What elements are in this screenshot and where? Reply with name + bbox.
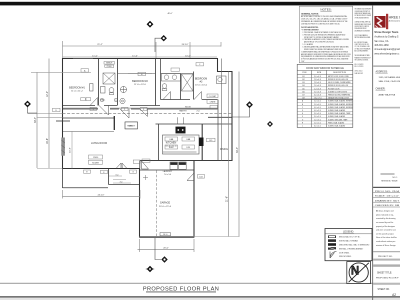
svg-text:THE DESIGNER HAS NOT BEEN: THE DESIGNER HAS NOT BEEN: [355, 54, 370, 58]
mud room door swing: [142, 161, 149, 169]
bedroom1 door leaf tag: [90, 84, 93, 91]
grid marker diamond top B with leader: [155, 35, 167, 52]
svg-text:CAB: CAB: [186, 138, 191, 141]
garage bottom wall emphasis: [140, 236, 195, 238]
notes block border: [299, 6, 352, 63]
svg-text:4'-0 x 4'-0: 4'-0 x 4'-0: [314, 107, 321, 109]
door tag hall c: [141, 107, 148, 111]
svg-text:LINEN: LINEN: [210, 102, 216, 104]
svg-text:16'-0: 16'-0: [163, 234, 167, 236]
legend swatch row 2: [328, 239, 358, 242]
disclaimer column short lines: [355, 64, 364, 75]
svg-text:2'-0: 2'-0: [196, 111, 199, 113]
svg-text:2'-8 x 6'-8: 2'-8 x 6'-8: [314, 82, 321, 84]
title block divider 2: [373, 107, 400, 109]
bedroom1 interior door swing: [90, 98, 98, 106]
svg-text:3'-0 x 6'-8: 3'-0 x 6'-8: [314, 76, 321, 78]
wall hall bottom: [63, 117, 115, 119]
schedule table outer border: [297, 64, 353, 127]
info table row 4: [373, 205, 400, 207]
dimension line garage bottom: [138, 249, 195, 251]
bath2 vanity with two sinks: [162, 74, 181, 82]
wall bath2 bedroom3 divider: [180, 74, 182, 100]
top wall window glazing bedroom1: [73, 58, 93, 60]
north arrow box: [347, 262, 371, 284]
svg-text:4'-0: 4'-0: [120, 181, 123, 183]
svg-text:16'-8": 16'-8": [46, 138, 49, 144]
legend swatch row 4: [328, 247, 364, 250]
svg-text:LEGEND:: LEGEND:: [343, 230, 354, 233]
patio step bottom: [109, 184, 140, 186]
grid marker diamond bottom A with leader: [155, 238, 168, 263]
info table row 2: [373, 195, 400, 198]
logo red square: [374, 16, 385, 28]
svg-text:San Jose, CA: San Jose, CA: [374, 40, 389, 43]
living room tag stack b: [89, 160, 103, 164]
dimension extension garage bottom: [140, 236, 240, 238]
grid marker diamond right A with leader: [232, 101, 253, 117]
hall bath circle fixture: [120, 86, 126, 92]
wall bedroom3 bottom: [161, 99, 218, 101]
svg-text:10'-0 x 10'-0: 10'-0 x 10'-0: [195, 85, 208, 87]
master closet door line: [118, 73, 155, 75]
wall kitchen top: [156, 123, 233, 125]
svg-text:POLE: POLE: [107, 66, 113, 68]
svg-text:103: 103: [302, 82, 305, 84]
svg-text:CHECKED BY: SM: CHECKED BY: SM: [375, 205, 400, 207]
svg-text:ALL CONSTRUCTION SHALL: ALL CONSTRUCTION SHALL: [355, 40, 369, 44]
svg-text:105: 105: [209, 140, 212, 142]
svg-text:107: 107: [302, 95, 305, 97]
svg-text:12'-2": 12'-2": [46, 91, 49, 97]
svg-text:20'-0 x 21'-6: 20'-0 x 21'-6: [159, 206, 172, 208]
sheet title underline: [146, 291, 216, 294]
sheet inner bottom border line: [0, 283, 400, 284]
fridge dark box on dining wall: [199, 138, 204, 147]
svg-text:21'-6": 21'-6": [225, 196, 228, 202]
svg-text:are owned by and the: are owned by and the: [376, 221, 393, 224]
svg-text:1: 1: [93, 109, 94, 111]
garage door tag on bottom wall: [160, 233, 171, 237]
bath1 toilet: [109, 88, 114, 95]
dimension extension left at wall line: [37, 118, 63, 169]
svg-text:OF THE DESIGNER. WRITTEN: OF THE DESIGNER. WRITTEN: [355, 17, 369, 19]
north arrow diagonal: [349, 263, 369, 282]
svg-text:NOOK: NOOK: [185, 106, 192, 108]
dimension line patio bottom: [63, 195, 141, 197]
svg-text:AMAY MAJITHIA: AMAY MAJITHIA: [379, 93, 396, 96]
closet shelving X box bath1: [103, 73, 115, 84]
wall hall south: [63, 108, 218, 110]
door swing bath2: [163, 92, 171, 100]
svg-text:21'-2": 21'-2": [97, 44, 103, 46]
svg-text:INTERIOR DOOR, HOLLOW: INTERIOR DOOR, HOLLOW: [328, 79, 349, 81]
grid marker diamond top A: [147, 21, 154, 28]
disclaimer column paragraph 2: [355, 20, 372, 32]
dimension line right pair a: [228, 72, 230, 237]
door swing hall to bath: [140, 109, 148, 117]
project no divider: [373, 251, 400, 253]
svg-text:COMPLY WITH 2019 CRC, CBC,: COMPLY WITH 2019 CRC, CBC,: [355, 44, 370, 46]
wall bedroom3 left: [193, 72, 195, 100]
schedule column header texts: [302, 72, 346, 74]
title block left divider: [371, 5, 374, 300]
patio dimension small arrows: [109, 176, 131, 183]
svg-text:PROJ. NO: 2104: PROJ. NO: 2104: [375, 191, 400, 193]
svg-text:LAUNDRY: LAUNDRY: [163, 170, 173, 173]
svg-text:SIZE: SIZE: [317, 72, 322, 74]
svg-text:103: 103: [199, 176, 202, 178]
svg-text:7-0 x 5-0: 7-0 x 5-0: [164, 174, 171, 176]
door tag hall a: [90, 107, 97, 111]
svg-text:DW: DW: [187, 147, 190, 149]
sheet top border band: [0, 2, 400, 6]
bath2 vanity front line: [161, 73, 194, 75]
svg-text:ADDRESS:: ADDRESS:: [376, 70, 389, 73]
mud tag box a: [133, 160, 140, 163]
dimension line top: [63, 45, 222, 47]
svg-text:SHEET NO.: SHEET NO.: [378, 289, 391, 291]
bedroom3 closet tag b: [207, 100, 218, 104]
svg-text:NO. 1: NO. 1: [393, 177, 398, 179]
svg-text:W/D: W/D: [129, 126, 133, 128]
schedule header row line: [297, 73, 353, 75]
svg-text:16'-0 x 7'-0: 16'-0 x 7'-0: [314, 98, 322, 100]
living room dim vertical: [71, 132, 73, 169]
svg-text:Architectural Des: Architectural Des: [389, 19, 400, 22]
svg-text:106: 106: [302, 91, 305, 93]
svg-text:GARAGE: GARAGE: [160, 202, 171, 205]
svg-text:2'-6 x 6'-8: 2'-6 x 6'-8: [314, 85, 321, 87]
svg-text:All ideas, designs and: All ideas, designs and: [376, 210, 393, 213]
fireplace hatch on west wall: [61, 138, 65, 156]
nook north wall: [208, 116, 232, 118]
svg-text:FRENCH DOORS, TEMPERED: FRENCH DOORS, TEMPERED: [328, 95, 351, 97]
svg-text:24'-10": 24'-10": [182, 44, 189, 46]
svg-text:None of the ideas shall be: None of the ideas shall be: [376, 236, 397, 239]
legend door swing symbol: [330, 252, 337, 259]
door tag garage entry: [198, 175, 205, 179]
wall kitchen nook divider double: [201, 124, 203, 161]
svg-text:SHELF: SHELF: [106, 63, 113, 65]
svg-text:INTERIOR DOOR, HOLLOW: INTERIOR DOOR, HOLLOW: [328, 85, 349, 87]
svg-text:3: 3: [143, 109, 144, 111]
svg-text:resented by this drawing: resented by this drawing: [376, 217, 395, 220]
info table row 3: [373, 199, 400, 202]
thick gray band upper: [373, 259, 400, 261]
disclaimer column paragraph 5: [355, 54, 371, 62]
svg-text:108: 108: [302, 98, 305, 100]
info table top border: [373, 187, 400, 188]
svg-text:1535, MCDANIEL AVE: 1535, MCDANIEL AVE: [379, 76, 400, 79]
kitchen cabinet tag r2c2: [182, 145, 195, 149]
svg-text:CONTRACTOR SHALL VERIFY ALL: CONTRACTOR SHALL VERIFY ALL: [355, 20, 371, 24]
svg-text:shreedesignteam@gmail: shreedesignteam@gmail: [374, 48, 400, 51]
bath2 shower X box: [182, 74, 194, 91]
svg-text:plans indicated or rep-: plans indicated or rep-: [376, 213, 394, 216]
dimension line right pair b: [238, 72, 240, 237]
kitchen cabinet tag r1c1: [165, 137, 178, 141]
svg-text:BEDROOM #1: BEDROOM #1: [69, 87, 85, 90]
svg-text:REVISION / ISSUE: REVISION / ISSUE: [381, 180, 398, 182]
smoke detector circle b: [114, 98, 117, 102]
sheet outer bottom trim line: [0, 296, 400, 297]
door tag hall b: [122, 107, 129, 111]
svg-text:5'-0 x 4'-0: 5'-0 x 4'-0: [314, 101, 321, 103]
legend box border: [325, 229, 372, 261]
svg-text:408-381-1660: 408-381-1660: [374, 45, 389, 47]
water heater closet at step: [217, 76, 227, 84]
svg-text:2: 2: [124, 109, 125, 111]
svg-text:DOOR SYMBOL: DOOR SYMBOL: [339, 252, 350, 254]
door swing bedroom3: [194, 92, 202, 100]
svg-text:DOOR AND WINDOW SCHEDULE: DOOR AND WINDOW SCHEDULE: [306, 67, 344, 70]
svg-text:F: F: [302, 116, 303, 118]
svg-text:KITCHEN: KITCHEN: [166, 142, 177, 145]
svg-text:30'-4": 30'-4": [34, 117, 37, 123]
svg-text:THE CONSTRUCTION WORK.: THE CONSTRUCTION WORK.: [355, 59, 369, 61]
grid marker diamond bottom B: [146, 266, 154, 272]
svg-text:3'-0 x 3'-6: 3'-0 x 3'-6: [314, 113, 321, 115]
svg-text:4'-0 x 3'-6: 4'-0 x 3'-6: [314, 110, 321, 112]
svg-text:GENERAL NOTES:: GENERAL NOTES:: [301, 13, 319, 16]
svg-text:Shree Design Team: Shree Design Team: [374, 30, 399, 34]
svg-text:SLIDING CLOSET DOORS: SLIDING CLOSET DOORS: [328, 91, 347, 93]
svg-text:WINDOW SYMBOL: WINDOW SYMBOL: [339, 256, 351, 258]
dimension ticks patio: [63, 190, 141, 199]
svg-text:105: 105: [302, 88, 305, 90]
patio bottom edge: [63, 187, 109, 189]
notes paragraph lines: [301, 15, 351, 63]
garage top wall: [140, 169, 195, 171]
living room upper line: [63, 131, 114, 133]
svg-text:H: H: [302, 122, 303, 124]
kitchen cabinet tag r2c1: [165, 145, 178, 149]
plan exterior walls outline: [63, 59, 233, 238]
revision short line: [381, 173, 395, 175]
svg-text:NOTES:: NOTES:: [320, 7, 331, 11]
window tag west wall: [53, 108, 61, 112]
title block disclaimer paragraph: [376, 210, 397, 247]
disclaimer column paragraph 3: [355, 34, 371, 40]
svg-text:E: E: [302, 113, 303, 115]
dining window tag: [207, 138, 216, 142]
svg-text:6'-0: 6'-0: [116, 174, 119, 176]
kitchen counter inner line: [163, 151, 197, 153]
svg-text:NOT BE USED WITHOUT CONSENT: NOT BE USED WITHOUT CONSENT: [355, 15, 372, 17]
svg-text:PANTRY: PANTRY: [179, 110, 187, 113]
bedroom1 corner tag pair: [81, 98, 91, 101]
svg-text:ENTRY DOOR, SOLID CORE: ENTRY DOOR, SOLID CORE: [328, 76, 349, 78]
schedule cell texts: [302, 76, 352, 128]
svg-text:12050: 12050: [93, 157, 98, 159]
grid marker diamond right B: [267, 121, 273, 127]
svg-text:DO NOT SCALE DRAWINGS.: DO NOT SCALE DRAWINGS.: [355, 34, 369, 38]
hall ceiling dashed line: [63, 113, 233, 115]
bedroom1 closet tag upper: [104, 62, 115, 65]
svg-text:PROPOSED FLOOR P: PROPOSED FLOOR P: [376, 278, 399, 280]
svg-text:PROJECT NO:: PROJECT NO:: [378, 256, 393, 258]
patio door tags row: [130, 170, 137, 174]
patio step wall vertical: [108, 169, 110, 185]
door swing hall to bedroom1: [99, 106, 109, 116]
bath2 toilet: [162, 84, 167, 91]
svg-text:DRAWN BY: SDT: DRAWN BY: SDT: [375, 199, 400, 202]
svg-text:10'-0": 10'-0": [185, 55, 191, 57]
svg-text:3'-0 x 3'-6: 3'-0 x 3'-6: [314, 116, 321, 118]
window tag south wall a: [84, 170, 91, 174]
dimension ticks garage bottom: [140, 239, 195, 252]
laundry washer box: [170, 162, 178, 169]
thick gray band: [373, 264, 400, 266]
svg-text:7-3/4": 7-3/4": [301, 61, 305, 63]
legend title row line: [325, 233, 372, 235]
window tag master top wall: [138, 72, 146, 76]
svg-text:16'-8": 16'-8": [70, 147, 72, 153]
wall kitchen left: [158, 124, 160, 161]
disclaimer column paragraph 1: [355, 7, 372, 19]
svg-text:WRITTEN DIMENSIONS GOVERN.: WRITTEN DIMENSIONS GOVERN.: [355, 37, 371, 39]
svg-text:REV. 1 : 05/10/2021: REV. 1 : 05/10/2021: [355, 64, 364, 66]
svg-text:5'-0 x 4'-0: 5'-0 x 4'-0: [314, 104, 321, 106]
svg-text:SAN JOSE, CA 95126: SAN JOSE, CA 95126: [379, 80, 400, 83]
kitchen island counter: [163, 135, 200, 154]
svg-text:#3: #3: [200, 81, 203, 84]
svg-text:33'-4": 33'-4": [236, 147, 239, 153]
svg-text:mission of Shree Design.: mission of Shree Design.: [376, 245, 396, 247]
hall linen cabinet box: [125, 122, 138, 129]
svg-text:SLIDER, OBSCURE, TEMP.: SLIDER, OBSCURE, TEMP.: [328, 119, 348, 121]
mud tag box b: [142, 159, 150, 162]
wall closet left vertical: [98, 59, 100, 106]
legend swatch row 3: [328, 243, 370, 246]
svg-text:POCKET DOOR: POCKET DOOR: [328, 88, 340, 90]
svg-text:CAB: CAB: [169, 138, 174, 141]
dimension line left inner: [48, 59, 50, 169]
dimension extension left horizontal: [31, 71, 91, 73]
svg-text:CLOSET: CLOSET: [209, 96, 217, 98]
svg-text:5'-0 x 6'-8: 5'-0 x 6'-8: [314, 91, 321, 93]
svg-text:2'-8 x 6'-8: 2'-8 x 6'-8: [314, 79, 321, 81]
svg-text:DESCRIPTION: DESCRIPTION: [333, 72, 347, 74]
svg-text:BEDROOM #2: BEDROOM #2: [132, 80, 148, 83]
svg-text:SLIDER: SLIDER: [92, 162, 99, 164]
svg-text:24'-10": 24'-10": [98, 194, 105, 196]
svg-text:2'-0 x 3'-0: 2'-0 x 3'-0: [314, 119, 321, 121]
svg-text:6'-0 x 4'-0: 6'-0 x 4'-0: [314, 126, 321, 128]
svg-text:N: N: [351, 266, 359, 278]
door swing hall to master: [120, 109, 129, 118]
svg-text:101: 101: [302, 76, 305, 78]
hall bath circle fixture second: [120, 98, 125, 103]
svg-text:SCALE: 1/4"=1'-0": SCALE: 1/4"=1'-0": [375, 195, 400, 198]
svg-text:SHEET TITLE:: SHEET TITLE:: [377, 272, 392, 274]
svg-text:REV. 2 : 07/22/2021: REV. 2 : 07/22/2021: [355, 66, 364, 68]
svg-text:B: B: [302, 104, 303, 106]
svg-text:DINING: DINING: [220, 149, 228, 151]
svg-text:THIS DRAWING IS AN INSTRUMENT: THIS DRAWING IS AN INSTRUMENT: [355, 7, 372, 11]
svg-text:2'-4 x 6'-8: 2'-4 x 6'-8: [314, 88, 321, 90]
page shadow below trim: [0, 298, 400, 300]
svg-text:11'-0": 11'-0": [92, 55, 98, 57]
dimension line top second: [63, 56, 218, 58]
smoke detector circle a: [100, 98, 103, 101]
living room tag stack a: [89, 155, 103, 159]
schedule column lines: [312, 70, 327, 127]
door swing patio double right: [122, 163, 127, 169]
pantry door frame: [178, 117, 184, 124]
bedroom3 closet tag a: [207, 94, 218, 98]
north arrow circle: [349, 263, 368, 282]
bedroom1 closet tag lower: [105, 65, 114, 68]
svg-text:JOB NO. 2021-14: JOB NO. 2021-14: [355, 70, 363, 72]
mud room tick: [143, 175, 148, 180]
svg-text:Architects by Drafting S: Architects by Drafting S: [374, 36, 398, 39]
dimension line left outer: [36, 72, 38, 168]
nook east thin wall: [217, 100, 219, 161]
wall master bedroom right: [155, 59, 157, 106]
hall south wall second line: [63, 107, 218, 109]
svg-text:6'-0 x 6'-8: 6'-0 x 6'-8: [314, 95, 321, 97]
svg-text:LIVING ROOM: LIVING ROOM: [91, 142, 107, 145]
legend swatch row 1: [328, 235, 361, 238]
wall closet right vertical: [117, 59, 119, 106]
window tag south wall b: [101, 170, 108, 174]
living nw short wall: [56, 120, 70, 122]
svg-text:PROPOSED FLOOR PLAN: PROPOSED FLOOR PLAN: [143, 286, 219, 292]
info table row 1: [373, 191, 400, 193]
door swing garage entry: [187, 173, 194, 181]
kitchen cabinet tag r1c2: [182, 137, 195, 141]
svg-text:property of the designer: property of the designer: [376, 225, 395, 228]
wall kitchen dining south: [140, 160, 232, 162]
svg-text:HREE DES: HREE DES: [389, 15, 400, 19]
svg-text:11'-6": 11'-6": [132, 55, 138, 57]
laundry west wall: [139, 161, 141, 169]
svg-text:on this specific project.: on this specific project.: [376, 232, 395, 235]
grid marker diamond left with leader: [24, 101, 37, 113]
dimension tick top left: [63, 41, 222, 58]
svg-text:used without written per-: used without written per-: [376, 240, 396, 243]
interior line east: [221, 59, 223, 161]
wall bath2 left vertical: [160, 59, 162, 100]
svg-text:104: 104: [302, 85, 305, 87]
svg-text:11'-0 x 11'-2: 11'-0 x 11'-2: [71, 91, 83, 93]
bath1 sink: [101, 87, 106, 94]
patio west wall extension: [62, 169, 64, 189]
title block divider 1: [373, 65, 400, 67]
svg-text:20'-0": 20'-0": [163, 248, 169, 250]
hall wall stub: [113, 116, 115, 130]
top wall window glazing master: [128, 73, 152, 75]
svg-text:102: 102: [302, 79, 305, 81]
svg-text:SYM: SYM: [302, 72, 307, 74]
kitchen range dark box: [176, 127, 186, 134]
svg-text:SINK: SINK: [169, 147, 174, 149]
logo red bar: [386, 14, 388, 29]
svg-text:A2: A2: [392, 293, 396, 297]
hall washer dryer box: [125, 122, 138, 129]
svg-text:2'-0 x 2'-0: 2'-0 x 2'-0: [314, 122, 321, 124]
svg-text:11'-6 x 13'-0: 11'-6 x 13'-0: [134, 84, 147, 86]
wall bedroom block bottom: [63, 105, 161, 107]
svg-text:46'-0": 46'-0": [167, 13, 172, 15]
schedule row lines: [297, 78, 353, 125]
disclaimer column paragraph 4: [355, 40, 371, 52]
door swing patio double left: [116, 163, 121, 169]
window tag bedroom3 top: [196, 63, 204, 67]
svg-text:www.shreedesignteam.c: www.shreedesignteam.c: [374, 52, 400, 55]
